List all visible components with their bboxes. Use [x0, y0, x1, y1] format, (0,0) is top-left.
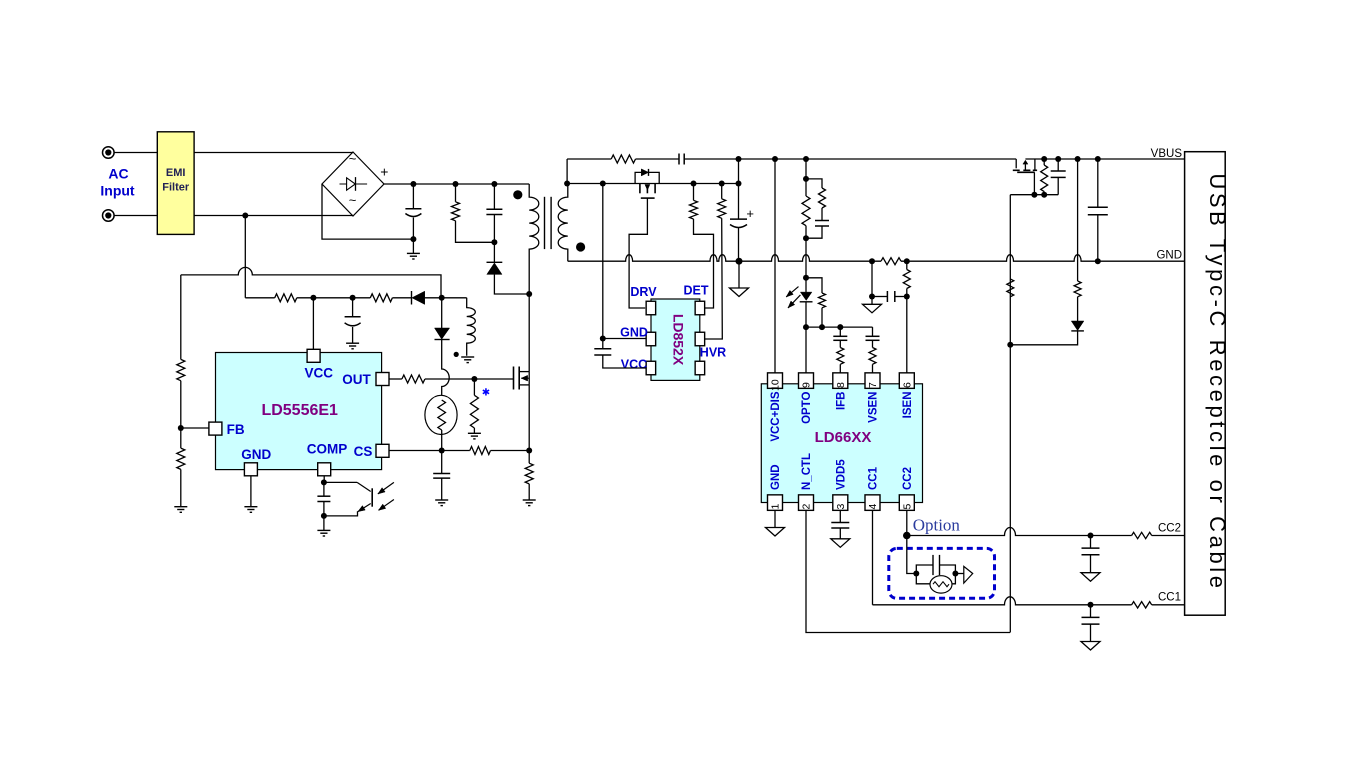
resistor R8 CS filter	[470, 447, 491, 455]
ground earth below R7	[468, 432, 481, 434]
connector J1 line terminal	[103, 147, 115, 159]
pin CS of U1	[376, 444, 389, 457]
svg-text:VCC: VCC	[621, 358, 647, 372]
resistor R16 LED parallel	[806, 278, 822, 293]
svg-text:✱: ✱	[482, 388, 490, 399]
resistor R4 FB upper	[180, 275, 182, 360]
EMI filter block	[157, 132, 194, 235]
transformer T1 primary winding	[529, 184, 539, 372]
pin 1 GND of U4	[768, 495, 783, 511]
svg-text:+: +	[746, 206, 754, 221]
capacitor C15 CC2	[1090, 536, 1092, 549]
diode D1 clamp	[493, 242, 495, 262]
svg-text:GND: GND	[770, 464, 782, 490]
svg-text:N_CTL: N_CTL	[801, 453, 813, 490]
wire Q2 gate to DRV	[629, 198, 647, 308]
wire VBUS rail right	[1025, 158, 1184, 160]
ground earth below C1	[407, 252, 420, 254]
svg-text:DRV: DRV	[630, 285, 657, 299]
capacitor C2 clamp	[493, 184, 495, 209]
svg-text:DET: DET	[684, 284, 709, 298]
svg-text:3: 3	[835, 504, 847, 510]
buffer triangle option	[955, 573, 963, 575]
wire FB to pin	[181, 427, 209, 429]
svg-text:6: 6	[901, 382, 913, 388]
pin GND of U3	[646, 332, 656, 346]
node COMP ground side	[321, 513, 327, 519]
wire gate bus	[1010, 194, 1058, 196]
ground earth below aux winding	[461, 356, 474, 358]
wire pin10 VCC+DIS to VBUS	[774, 159, 776, 373]
svg-text:5: 5	[901, 504, 913, 510]
pin 3 VDD5 of U4	[833, 495, 848, 511]
node output cap ground	[736, 258, 743, 265]
node FB	[178, 425, 184, 431]
capacitor C5 CS filter	[441, 451, 443, 474]
transformer T1 primary phase dot	[513, 190, 522, 199]
node ISEN	[904, 294, 910, 300]
pin 8 IFB of U4	[833, 373, 848, 389]
node secondary top	[564, 181, 570, 187]
wire N_CTL riser	[1009, 195, 1011, 633]
node primary drain	[526, 291, 532, 297]
diode D2 VCC rectifier	[411, 291, 413, 305]
option dashed box	[889, 548, 995, 598]
wire VCC pin drop	[312, 298, 314, 349]
USB receptacle block	[1185, 152, 1226, 616]
transformer T1 secondary phase dot	[576, 242, 585, 251]
svg-text:Option: Option	[913, 516, 961, 535]
resistor R15 comp	[806, 179, 822, 188]
node U3 GND tap	[600, 336, 606, 342]
wire SR rail	[567, 183, 738, 185]
pin 10 VCC+DIS of U4	[768, 373, 783, 389]
pin 4 CC1 of U4	[865, 495, 880, 511]
ground triangle below C8	[738, 261, 740, 288]
wire option input	[907, 536, 917, 574]
ground triangle ISEN	[871, 297, 873, 305]
capacitor C18 VBUS output	[1097, 159, 1099, 207]
node CS sense	[526, 448, 532, 454]
ground earth below C5	[435, 499, 448, 501]
capacitor C17 gate	[1057, 159, 1059, 171]
node CC2 option tap	[903, 532, 911, 540]
node N_CTL junction	[1007, 342, 1013, 348]
pin 7 VSEN of U4	[865, 373, 880, 389]
ground earth below R5	[174, 506, 187, 508]
wire AC neutral to EMI filter	[114, 215, 157, 217]
diode Q2 body	[635, 172, 659, 183]
svg-text:OUT: OUT	[342, 372, 371, 387]
pin DET of U3	[695, 301, 705, 315]
svg-text:LD66XX: LD66XX	[815, 429, 872, 446]
connector J1 neutral terminal	[103, 210, 115, 222]
node TL431 bottom	[803, 235, 809, 241]
svg-text:GND: GND	[241, 447, 271, 462]
node COMP	[321, 479, 327, 485]
wire COMP pin down	[323, 476, 325, 483]
svg-text:AC: AC	[108, 166, 128, 182]
inductor aux winding	[442, 297, 467, 299]
svg-text:VDD5: VDD5	[835, 459, 847, 490]
diode D3 bootstrap	[441, 298, 443, 328]
svg-text:2: 2	[801, 504, 813, 510]
svg-text:CC2: CC2	[902, 467, 914, 490]
pin VCC of U1	[307, 349, 320, 362]
svg-text:VSEN: VSEN	[868, 392, 880, 423]
transformer T1 core	[544, 197, 546, 249]
svg-text:10: 10	[770, 379, 782, 391]
svg-text:4: 4	[867, 504, 879, 510]
wire bridge negative to bulk cap bottom	[322, 184, 413, 239]
svg-text:CS: CS	[354, 444, 373, 459]
aux winding phase dot	[454, 352, 459, 357]
pin FB of U1	[209, 422, 222, 435]
wire CS pin	[389, 450, 442, 452]
node TL431 top	[803, 176, 809, 182]
svg-text:1: 1	[770, 504, 782, 510]
node LED anode	[803, 275, 809, 281]
node aux rectifier junction	[439, 295, 445, 301]
svg-text:~: ~	[349, 151, 357, 166]
pin 5 CC2 of U4	[899, 495, 914, 511]
resistor R19 ISEN filter	[906, 261, 908, 269]
node option left	[913, 571, 919, 577]
wire pin4 CC1 to receptacle	[872, 510, 874, 604]
pin COMP of U1	[318, 463, 331, 476]
resistor R23 gate pullup	[1043, 159, 1045, 165]
svg-text:LD852X: LD852X	[671, 314, 687, 366]
wire pin5 CC2	[906, 510, 908, 535]
thermistor RT1	[425, 395, 457, 434]
node VCC cap tap	[313, 297, 352, 299]
node CS filter	[439, 448, 445, 454]
svg-text:USB Typc-C Receptcle or Cable: USB Typc-C Receptcle or Cable	[1205, 173, 1230, 591]
capacitor C4 COMP	[323, 482, 325, 496]
transistor Q1 main switch	[513, 367, 515, 390]
resistor R11 DET sense	[693, 184, 695, 201]
node feedback bus	[803, 324, 809, 330]
wire ISEN pin column	[906, 297, 908, 373]
resistor R25 divider	[1007, 279, 1014, 297]
ground triangle pin1 GND	[774, 510, 776, 527]
ground triangle CC1	[1081, 642, 1100, 651]
svg-text:OPTO: OPTO	[801, 391, 813, 423]
ground triangle VDD5	[831, 539, 850, 548]
svg-text:ISEN: ISEN	[902, 392, 914, 419]
node CC2 cap tap	[1088, 533, 1094, 539]
wire U3 supply column	[602, 184, 604, 349]
capacitor C7 U3 supply	[594, 348, 611, 350]
svg-text:Input: Input	[100, 183, 135, 199]
svg-text:7: 7	[867, 382, 879, 388]
svg-text:CC2: CC2	[1158, 522, 1181, 534]
ground earth below C3	[346, 342, 359, 344]
resistor R18 VSEN	[872, 340, 874, 347]
capacitor C3 VCC	[352, 298, 354, 317]
diode D4 opto LED	[805, 278, 807, 292]
svg-text:9: 9	[801, 382, 813, 388]
capacitor C12 ISEN	[871, 261, 873, 296]
capacitor C9 comp	[821, 208, 823, 221]
pin VCC of U3	[646, 361, 656, 375]
svg-text:8: 8	[835, 382, 847, 388]
wire LED chain crossing ground rail	[805, 238, 807, 278]
svg-text:HVR: HVR	[700, 346, 726, 360]
wire Q1 source to CS node	[528, 385, 530, 451]
diode D5 detect	[1077, 297, 1079, 321]
IC U3 LD852X body	[651, 299, 700, 380]
svg-text:VCC: VCC	[304, 366, 333, 381]
capacitor C13 VDD5	[839, 510, 841, 522]
capacitor C6 snubber	[678, 154, 680, 165]
pin HVR of U3	[695, 332, 705, 346]
capacitor C14 CC1	[1090, 605, 1092, 618]
capacitor C1 bulk	[412, 184, 414, 209]
resistor R5 FB lower	[180, 428, 182, 448]
wire D3 to thermistor with hop over OUT	[442, 340, 450, 396]
transformer T1 secondary winding	[558, 184, 568, 262]
svg-text:COMP: COMP	[307, 442, 348, 457]
node clamp RC junction	[491, 239, 497, 245]
svg-text:VBUS: VBUS	[1151, 148, 1183, 160]
node VCC pin tap	[310, 295, 316, 301]
wire VBUS rail left	[567, 158, 611, 160]
capacitor C16 option	[916, 565, 933, 574]
IC U1 LD5556E1 body	[216, 353, 382, 470]
pin 9 OPTO of U4	[799, 373, 814, 389]
svg-text:GND: GND	[1156, 249, 1182, 261]
resistor R22 option variable	[916, 574, 930, 584]
pin DRV of U3	[646, 301, 656, 315]
pin OUT of U1	[376, 373, 389, 386]
bridge rectifier BD1 diamond	[322, 152, 384, 216]
wire bridge positive to DC rail	[384, 183, 529, 185]
node option right	[952, 571, 958, 577]
wire VCC top link	[181, 267, 441, 297]
svg-text:CC1: CC1	[868, 466, 880, 490]
svg-text:Filter: Filter	[162, 182, 190, 194]
opto LED light arrows	[786, 287, 798, 297]
svg-text:LD5556E1: LD5556E1	[261, 402, 338, 419]
wire EMI filter to bridge AC2	[194, 215, 353, 217]
svg-text:CC1: CC1	[1158, 592, 1181, 604]
bridge internal diode	[340, 183, 368, 185]
wire secondary ground rail	[568, 255, 881, 261]
resistor R7 gate pulldown	[473, 379, 475, 395]
ground earth below C4	[317, 529, 330, 531]
capacitor C10 IFB	[839, 327, 841, 336]
wire GND pin of U1 to ground	[250, 476, 252, 507]
node gate	[471, 376, 477, 382]
svg-text:~: ~	[349, 193, 357, 208]
wire VBUS rail middle	[684, 158, 1016, 160]
wire secondary to VBUS riser	[566, 159, 568, 184]
resistor R17 IFB	[839, 340, 841, 347]
resistor R6 gate drive	[402, 375, 425, 383]
wire CC2 to receptacle	[907, 528, 1132, 536]
optocoupler U2 phototransistor	[324, 481, 357, 483]
transistor Q2 sync rectifier	[639, 184, 641, 194]
pin GND of U1	[244, 463, 257, 476]
pin 6 ISEN of U4	[899, 373, 914, 389]
transistor Q3 discharge	[1015, 159, 1017, 168]
wire Q3 gate	[1033, 172, 1035, 194]
resistor R1 clamp	[455, 184, 457, 202]
wire startup from AC tap	[244, 216, 246, 298]
resistor R21 CC2 series	[1132, 532, 1152, 538]
ground earth below GND pin	[244, 506, 257, 508]
svg-text:GND: GND	[620, 326, 648, 340]
wire snubber to SR rail	[738, 159, 740, 184]
capacitor C11 VSEN	[872, 327, 874, 336]
svg-text:+: +	[380, 164, 388, 180]
node startup tap on AC neutral	[242, 213, 248, 219]
resistor R12 HVR sense	[721, 184, 723, 199]
ground triangle CC2	[1081, 573, 1100, 582]
pin NC of U3	[695, 361, 705, 375]
wire pin2 N_CTL	[806, 510, 1010, 632]
resistor R20 CC1 series	[1132, 602, 1152, 608]
wire OPTO pin column	[805, 327, 807, 373]
ground earth below R9	[523, 499, 536, 501]
resistor R2 startup	[245, 297, 274, 299]
optocoupler U2 light arrows	[378, 482, 394, 494]
resistor R14 feedback upper	[802, 196, 810, 226]
node CC1 cap tap	[1088, 602, 1094, 608]
capacitor C8 output electrolytic	[738, 184, 740, 220]
pin 2 N_CTL of U4	[799, 495, 814, 511]
wire AC line to EMI filter	[114, 152, 157, 154]
resistor R3 VCC series	[370, 294, 392, 302]
IC U4 LD66XX body	[761, 384, 922, 503]
svg-text:IFB: IFB	[835, 392, 847, 411]
svg-text:VCC+DIS: VCC+DIS	[770, 391, 782, 441]
svg-text:FB: FB	[227, 422, 245, 437]
resistor R9 current sense	[528, 451, 530, 464]
wire OPTO column from VBUS	[805, 159, 807, 196]
svg-text:EMI: EMI	[166, 167, 186, 179]
wire OUT pin	[389, 378, 402, 380]
wire EMI filter to bridge AC1	[194, 152, 353, 154]
resistor R24 VBUS divider	[1077, 159, 1079, 281]
wire GND pin of U3	[603, 338, 646, 340]
resistor R10 snubber	[611, 155, 635, 163]
